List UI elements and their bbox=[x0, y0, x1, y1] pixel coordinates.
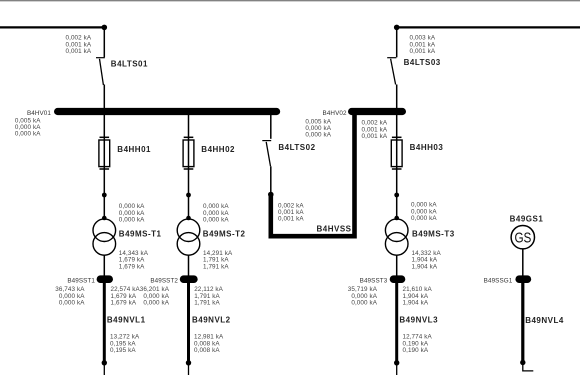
node: feeder 1 bottom bbox=[102, 360, 107, 365]
svg-text:B4HH01: B4HH01 bbox=[117, 145, 151, 154]
bus B49SST1 bbox=[100, 275, 109, 283]
fuse B4HH01 bbox=[99, 137, 110, 169]
value labels bottom feeder 1 bbox=[110, 334, 140, 354]
value labels under T2 bbox=[203, 250, 233, 270]
svg-text:B4HV02: B4HV02 bbox=[323, 110, 347, 117]
bus B49SST2 bbox=[184, 275, 194, 283]
svg-text:B4HH03: B4HH03 bbox=[410, 143, 444, 152]
svg-text:1,791 kA: 1,791 kA bbox=[194, 300, 220, 307]
svg-text:0,195 kA: 0,195 kA bbox=[110, 347, 136, 354]
svg-text:0,001 kA: 0,001 kA bbox=[66, 48, 92, 55]
node: right feed junction bbox=[394, 25, 400, 31]
wire: generator to bus B49SSG1 bbox=[522, 249, 524, 277]
wire: node to transformer T3 bbox=[396, 195, 398, 219]
bus B4HV01 bbox=[58, 108, 277, 115]
value labels right of B49SST3 bbox=[403, 286, 433, 306]
svg-text:B49NVL2: B49NVL2 bbox=[192, 315, 231, 324]
svg-text:B49SSG1: B49SSG1 bbox=[484, 277, 513, 284]
value labels right of B49SST2 bbox=[194, 286, 223, 306]
wire: left incoming feed bbox=[0, 26, 104, 28]
svg-text:B4LTS02: B4LTS02 bbox=[278, 143, 315, 152]
value labels feeder 3 node bbox=[411, 202, 437, 222]
svg-text:0,000 kA: 0,000 kA bbox=[143, 300, 169, 307]
svg-text:B49MS-T2: B49MS-T2 bbox=[203, 230, 246, 239]
node: feeder 3 bottom bbox=[394, 360, 399, 365]
value labels at node below B4LTS02 bbox=[278, 202, 304, 222]
wire: B4HV01 to B4LTS02 bbox=[270, 115, 272, 139]
svg-text:0,000 kA: 0,000 kA bbox=[119, 217, 145, 224]
transformer B49MS-T2 bbox=[177, 219, 200, 255]
disconnector B4LTS02 bbox=[262, 141, 271, 167]
svg-text:0,001 kA: 0,001 kA bbox=[410, 48, 436, 55]
svg-text:0,190 kA: 0,190 kA bbox=[403, 347, 429, 354]
cable B49NVL2 bbox=[187, 283, 190, 361]
wire: bus to fuse B4HH01 and down to node bbox=[103, 115, 105, 195]
wire: right incoming feed bbox=[397, 26, 580, 28]
node: transformer T1 top bbox=[102, 216, 107, 221]
fuse B4HH02 bbox=[183, 137, 194, 169]
svg-text:0,000 kA: 0,000 kA bbox=[411, 215, 437, 222]
svg-text:1,904 kA: 1,904 kA bbox=[412, 263, 438, 270]
svg-text:B49SST2: B49SST2 bbox=[150, 277, 178, 284]
value labels feeder 2 node bbox=[203, 203, 229, 223]
bus B4HV02 bbox=[352, 108, 403, 115]
disconnector B4LTS01 bbox=[96, 58, 105, 85]
wire: node to transformer T1 bbox=[103, 195, 105, 219]
node: transformer T2 top bbox=[186, 216, 191, 221]
svg-text:B4HH02: B4HH02 bbox=[201, 145, 235, 154]
wire: B4LTS02 to node bbox=[270, 166, 272, 194]
node: feeder 2 bottom bbox=[186, 360, 191, 365]
value labels feed right (0,003/0,001/0,001 kA) bbox=[410, 35, 436, 55]
wire: feeder 4 exit elbow bbox=[523, 363, 534, 371]
svg-text:1,679 kA: 1,679 kA bbox=[111, 300, 137, 307]
top window border bbox=[0, 0, 580, 2]
cable B49NVL4 bbox=[521, 283, 524, 361]
wire: feeder 1 exit bbox=[103, 363, 105, 375]
value labels feed left (0,002/0,001/0,001 kA) bbox=[66, 35, 92, 55]
value labels bus B4HV01 bbox=[15, 117, 41, 137]
wire: B4LTS03 to bus B4HV02 bbox=[396, 85, 398, 113]
svg-text:B49NVL1: B49NVL1 bbox=[107, 315, 146, 324]
node: left feed junction bbox=[102, 25, 108, 31]
disconnector B4LTS03 bbox=[387, 58, 396, 85]
svg-text:0,000 kA: 0,000 kA bbox=[305, 132, 331, 139]
value labels left of B49SST3 bbox=[348, 286, 378, 306]
node: feeder 1 measurement point bbox=[102, 193, 107, 198]
svg-text:B4LTS01: B4LTS01 bbox=[111, 60, 148, 69]
svg-text:0,001 kA: 0,001 kA bbox=[278, 216, 304, 223]
node: transformer T3 top bbox=[394, 216, 399, 221]
value labels under T1 bbox=[119, 250, 149, 270]
svg-text:B4HV01: B4HV01 bbox=[27, 110, 51, 117]
cable B4HVSS (thick U route) bbox=[271, 112, 355, 236]
svg-text:0,000 kA: 0,000 kA bbox=[351, 300, 377, 307]
svg-text:B49GS1: B49GS1 bbox=[510, 214, 544, 223]
svg-text:B49SST3: B49SST3 bbox=[360, 277, 388, 284]
svg-text:0,000 kA: 0,000 kA bbox=[59, 300, 85, 307]
cable B49NVL1 bbox=[103, 283, 106, 361]
wire: T3 to bus B49SST3 bbox=[396, 255, 398, 277]
svg-text:0,000 kA: 0,000 kA bbox=[15, 131, 41, 138]
transformer B49MS-T1 bbox=[93, 219, 116, 255]
wire: feed to B4LTS03 bbox=[396, 27, 398, 57]
svg-text:B4LTS03: B4LTS03 bbox=[404, 58, 441, 67]
svg-text:0,008 kA: 0,008 kA bbox=[194, 347, 220, 354]
node: feeder 2 measurement point bbox=[186, 193, 191, 198]
value labels bottom feeder 3 bbox=[403, 334, 433, 354]
value labels bottom feeder 2 bbox=[194, 334, 224, 354]
svg-text:0,000 kA: 0,000 kA bbox=[203, 217, 229, 224]
value labels under T3 bbox=[412, 250, 442, 270]
bus B49SSG1 bbox=[519, 275, 527, 283]
transformer B49MS-T3 bbox=[385, 219, 408, 255]
wire: feeder 3 exit bbox=[396, 363, 398, 375]
value labels right of B49SST1 bbox=[111, 286, 141, 306]
svg-text:GS: GS bbox=[515, 230, 532, 246]
generator B49GS1 bbox=[511, 226, 534, 249]
wire: bus B4HV02 to fuse B4HH03 and down to node bbox=[396, 115, 398, 195]
node: feeder 3 measurement point bbox=[394, 193, 399, 198]
svg-text:B49NVL4: B49NVL4 bbox=[525, 316, 564, 325]
svg-text:B49MS-T3: B49MS-T3 bbox=[412, 230, 455, 239]
value labels feeder 1 node bbox=[119, 203, 145, 223]
svg-text:B49MS-T1: B49MS-T1 bbox=[119, 230, 162, 239]
value labels B4HVSS right leg bbox=[362, 120, 388, 140]
wire: B4LTS01 to bus B4HV01 bbox=[103, 85, 105, 113]
svg-text:1,679 kA: 1,679 kA bbox=[119, 263, 145, 270]
svg-text:B49NVL3: B49NVL3 bbox=[399, 315, 438, 324]
svg-text:1,904 kA: 1,904 kA bbox=[403, 300, 429, 307]
wire: T2 to bus B49SST2 bbox=[188, 255, 190, 277]
node: B4LTS02 / B4HVSS junction bbox=[268, 192, 274, 198]
wire: node to transformer T2 bbox=[188, 195, 190, 219]
svg-text:0,001 kA: 0,001 kA bbox=[362, 133, 388, 140]
fuse B4HH03 bbox=[391, 137, 402, 169]
value labels left of B49SST1 bbox=[55, 286, 85, 306]
svg-text:B49SST1: B49SST1 bbox=[67, 277, 95, 284]
cable B49NVL3 bbox=[395, 283, 398, 361]
node: feeder 4 bottom bbox=[520, 360, 525, 365]
svg-text:B4HVSS: B4HVSS bbox=[317, 225, 352, 234]
svg-text:1,791 kA: 1,791 kA bbox=[203, 263, 229, 270]
value labels bus B4HV02 bbox=[305, 118, 331, 138]
wire: feed to B4LTS01 bbox=[103, 27, 105, 57]
wire: bus to fuse B4HH02 and down to node bbox=[188, 115, 190, 195]
wire: T1 to bus B49SST1 bbox=[103, 255, 105, 277]
bus B49SST3 bbox=[394, 275, 402, 283]
value labels left of B49SST2 bbox=[140, 286, 170, 306]
wire: feeder 2 exit bbox=[188, 363, 190, 375]
